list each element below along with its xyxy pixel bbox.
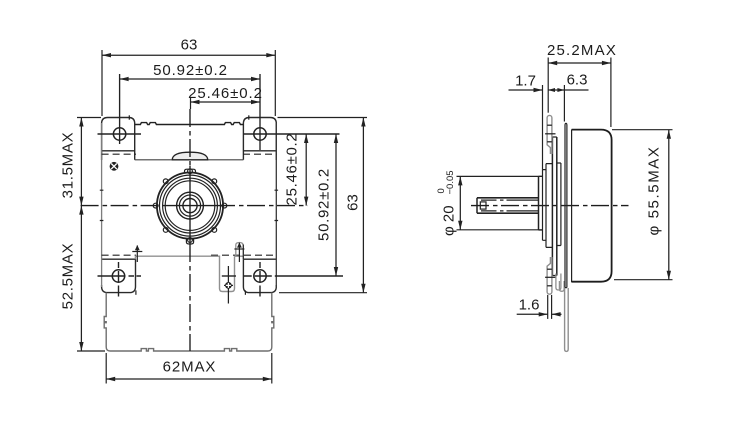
shaft end slot [480,202,486,209]
rotor hub concentric circles [157,173,223,239]
dim 1.7 [509,72,543,92]
svg-text:63: 63 [181,36,198,53]
plate top tab (ear edge-on) [547,115,552,154]
svg-text:50.92±0.2: 50.92±0.2 [153,62,228,79]
stake tick marks on ear edges [129,115,249,294]
mounting plate edge-on [552,137,561,276]
shaft [477,198,539,213]
hole centerline horizontal y=276 [98,275,344,277]
small tab A below plate [556,274,561,291]
svg-text:52.5MAX: 52.5MAX [59,243,76,310]
hole centerline horizontal y=134 [98,133,340,135]
dim 62MAX bottom [106,353,272,384]
ear top-right [243,118,276,161]
svg-text:25.46±0.2: 25.46±0.2 [283,133,300,206]
svg-text:50.92±0.2: 50.92±0.2 [315,168,332,241]
dome (grease cap) [172,152,207,160]
ear top-left [102,118,135,161]
svg-text:1.7: 1.7 [515,72,536,89]
svg-text:25.2MAX: 25.2MAX [547,42,617,59]
screw top-left (phillips) [110,162,119,171]
svg-text:62MAX: 62MAX [163,359,217,376]
hub boss steps [539,85,553,247]
ear bottom-left [102,259,136,292]
front body top edge with tabs [135,123,243,125]
top bracket inner rect [135,159,244,161]
svg-text:63: 63 [344,194,361,211]
plate bottom tab (ear edge-on) [547,257,552,294]
dim phi55.5MAX [612,130,673,280]
dim phi20 [436,170,543,236]
dim 25.2MAX [547,42,617,127]
side view centerline dash-dot [471,205,629,207]
center crosshair dash-dot horizontal [81,205,308,207]
hole vertical centerlines bottom holes [119,262,261,297]
motor can body [572,130,612,282]
plate bottom tab tick lines [545,269,555,286]
terminal strip below can [565,288,569,351]
dim 25.46 right vertical [283,133,308,206]
svg-text:1.6: 1.6 [519,297,540,314]
hub top tab [185,169,196,173]
front body lower section outline [104,293,274,351]
ear bottom-right [243,259,276,292]
svg-text:−0.05: −0.05 [445,170,456,194]
dashed hidden lines above bottom ears [102,254,277,256]
dim 31.5MAX left [59,118,101,206]
can crimp line [571,130,573,283]
dim 63 top [102,36,275,116]
dim 25.46 top [188,85,263,109]
dim 63 right vertical [278,118,368,293]
dim 50.92 top [120,62,260,150]
bracket claw arrow right with tab [234,242,244,262]
svg-text:25.46±0.2: 25.46±0.2 [188,85,263,102]
front body side edges [102,123,277,287]
dim 6.3 [548,72,589,122]
dim 1.6 [517,295,562,319]
dashed hidden lines under top ears [102,153,277,155]
hub bottom tab [186,239,193,244]
scallop bumps on outer circle [153,169,227,243]
front view body outline: ears [102,118,277,293]
bracket claw arrow left [132,245,142,262]
small tab B below plate [559,281,564,291]
plate top tab tick lines [545,125,555,142]
screw bottom-middle in U tab [224,266,233,304]
svg-text:φ 55.5MAX: φ 55.5MAX [645,146,662,236]
can front lip [565,123,567,287]
bottom bracket gray outline with U tab [135,256,243,291]
svg-text:31.5MAX: 31.5MAX [59,132,76,199]
center crosshair dash-dot vertical [189,109,191,351]
svg-text:6.3: 6.3 [567,72,588,89]
stake tick marks on side edges [100,190,278,220]
svg-text:φ 20: φ 20 [441,205,458,236]
dim 50.92 right vertical [315,134,338,276]
dim 52.5MAX left [59,206,105,351]
mounting holes with crosshairs [112,128,266,282]
